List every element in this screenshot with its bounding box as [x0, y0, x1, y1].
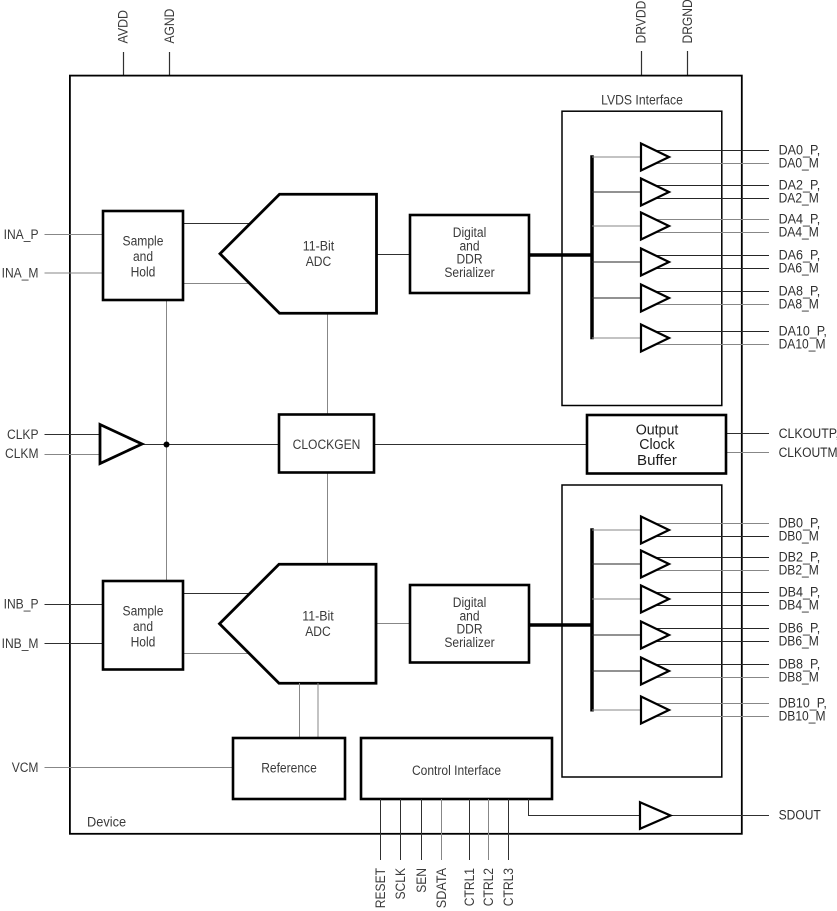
- block Output Clock Buffer: [587, 415, 726, 474]
- bus LVDS A vertical (thick): [590, 155, 594, 339]
- wire DRGND pin stub: [687, 51, 689, 75]
- svg-text:DRVDD: DRVDD: [634, 0, 649, 43]
- buffer DA4 triangle: [641, 213, 669, 240]
- wire bus to buffer DA6: [592, 261, 641, 263]
- wire bus to buffer DB0: [592, 529, 641, 531]
- wire DA0_M output: [653, 163, 769, 165]
- wire bus to buffer DA8: [592, 297, 641, 299]
- svg-text:SDATA: SDATA: [434, 868, 449, 908]
- block 11-Bit ADC B pentagon: [220, 564, 377, 683]
- clock input buffer triangle: [100, 425, 142, 464]
- buffer SDOUT triangle: [640, 802, 671, 829]
- wire DB8_M output: [653, 677, 769, 679]
- block Sample and Hold B: [103, 581, 183, 670]
- svg-text:DB4_M: DB4_M: [779, 598, 819, 613]
- block CLOCKGEN: [279, 415, 374, 473]
- buffer DB6 triangle: [641, 622, 669, 649]
- svg-text:SCLK: SCLK: [393, 868, 408, 900]
- wire clock buffer out to CLOCKGEN: [142, 444, 279, 446]
- wire DB2_M output: [653, 570, 769, 572]
- wire VCM to Reference: [45, 767, 234, 769]
- svg-text:ADC: ADC: [306, 254, 332, 269]
- buffer DB10 triangle: [641, 697, 669, 724]
- svg-text:DA4_M: DA4_M: [779, 225, 819, 240]
- wire bus to buffer DB10: [592, 709, 641, 711]
- block Reference: [233, 738, 345, 799]
- svg-text:CLKOUTP,: CLKOUTP,: [779, 426, 837, 441]
- svg-text:Serializer: Serializer: [444, 265, 495, 280]
- wire ADC B to Reference left: [299, 683, 301, 738]
- wire RESET pin: [380, 799, 382, 860]
- svg-text:VCM: VCM: [12, 760, 39, 775]
- svg-text:DB10_M: DB10_M: [779, 709, 826, 724]
- svg-text:11-Bit: 11-Bit: [303, 238, 335, 253]
- wire bus to buffer DA4: [592, 225, 641, 227]
- wire bus to buffer DA0: [592, 156, 641, 158]
- svg-text:DA0_M: DA0_M: [779, 156, 819, 171]
- wire DA6_M output: [653, 268, 769, 270]
- svg-text:DA10_M: DA10_M: [779, 337, 826, 352]
- buffer DA2 triangle: [641, 179, 669, 206]
- svg-text:INA_M: INA_M: [2, 266, 39, 281]
- wire serializer B to LVDS bus (thick): [529, 623, 592, 627]
- bus LVDS B vertical (thick): [590, 528, 594, 711]
- svg-text:and: and: [133, 249, 153, 264]
- svg-text:CTRL2: CTRL2: [481, 868, 496, 906]
- wire CTRL1 pin: [469, 799, 471, 860]
- svg-text:DB8_M: DB8_M: [779, 670, 819, 685]
- wire CLKP: [45, 434, 101, 436]
- junction dot clock node: [164, 442, 170, 448]
- svg-text:INA_P: INA_P: [4, 227, 39, 242]
- wire DB6_M output: [653, 641, 769, 643]
- svg-text:DB2_M: DB2_M: [779, 563, 819, 578]
- wire DB0_P output: [653, 523, 769, 525]
- wire SDOUT output: [671, 815, 770, 817]
- wire SEN pin: [421, 799, 423, 860]
- wire DA6_P output: [653, 255, 769, 257]
- wire CLOCKGEN to ADC B: [327, 473, 329, 565]
- svg-text:INB_P: INB_P: [4, 597, 39, 612]
- device boundary box: [70, 76, 742, 834]
- wire DA10_M output: [653, 344, 769, 346]
- buffer DA0 triangle: [641, 144, 669, 171]
- wire DB2_P output: [653, 557, 769, 559]
- block Control Interface: [361, 738, 552, 799]
- buffer DB4 triangle: [641, 586, 669, 613]
- wire DB8_P output: [653, 664, 769, 666]
- wire ADC B to serializer B: [376, 623, 411, 625]
- block Digital and DDR Serializer A: [410, 215, 529, 293]
- wire AGND pin stub: [169, 52, 171, 76]
- wire CLOCKGEN to ADC A: [327, 313, 329, 415]
- wire S/H A to ADC A lower: [183, 283, 255, 285]
- wire S/H B to ADC B upper: [183, 593, 255, 595]
- svg-text:and: and: [133, 619, 153, 634]
- wire INB_M: [45, 643, 104, 645]
- wire clock vertical to both S/H: [166, 300, 168, 581]
- wire ADC A to serializer A: [377, 254, 411, 256]
- wire INB_P: [45, 604, 104, 606]
- svg-text:Clock: Clock: [639, 437, 675, 453]
- block 11-Bit ADC A pentagon: [220, 194, 377, 313]
- wire CLKOUTM: [726, 452, 769, 454]
- buffer DB2 triangle: [641, 551, 669, 578]
- wire S/H B to ADC B lower: [183, 653, 255, 655]
- wire bus to buffer DB8: [592, 670, 641, 672]
- wire SCLK pin: [400, 799, 402, 860]
- svg-text:Hold: Hold: [131, 264, 156, 279]
- wire bus to buffer DB2: [592, 563, 641, 565]
- svg-text:CLKM: CLKM: [5, 446, 39, 461]
- wire DA2_P output: [653, 185, 769, 187]
- buffer DA10 triangle: [641, 325, 669, 352]
- svg-text:Buffer: Buffer: [637, 453, 677, 469]
- block LVDS Interface A box: [562, 111, 722, 405]
- buffer DA8 triangle: [641, 285, 669, 312]
- svg-text:INB_M: INB_M: [2, 636, 39, 651]
- block Digital and DDR Serializer B: [410, 585, 529, 663]
- wire CLKOUTP: [726, 433, 769, 435]
- svg-text:ADC: ADC: [305, 624, 331, 639]
- svg-text:Sample: Sample: [123, 234, 164, 249]
- wire DB4_M output: [653, 605, 769, 607]
- svg-text:Hold: Hold: [131, 634, 156, 649]
- svg-text:DA8_M: DA8_M: [779, 297, 819, 312]
- wire DB6_P output: [653, 628, 769, 630]
- svg-text:CTRL1: CTRL1: [462, 868, 477, 906]
- wire DB0_M output: [653, 536, 769, 538]
- svg-text:AGND: AGND: [162, 8, 177, 43]
- buffer DB0 triangle: [641, 517, 669, 544]
- svg-text:SEN: SEN: [414, 868, 429, 893]
- svg-text:CLKOUTM: CLKOUTM: [779, 445, 837, 460]
- wire DA2_M output: [653, 198, 769, 200]
- wire CTRL2 pin: [488, 799, 490, 860]
- svg-text:DB6_M: DB6_M: [779, 634, 819, 649]
- svg-text:Device: Device: [87, 815, 126, 830]
- wire INA_M: [45, 272, 104, 274]
- svg-text:RESET: RESET: [373, 868, 388, 908]
- wire DA8_M output: [653, 304, 769, 306]
- wire S/H A to ADC A upper: [183, 223, 255, 225]
- wire CLOCKGEN to Output Clock Buffer: [374, 444, 587, 446]
- wire bus to buffer DB6: [592, 634, 641, 636]
- wire DRVDD pin stub: [641, 51, 643, 75]
- svg-text:Sample: Sample: [123, 604, 164, 619]
- svg-text:CTRL3: CTRL3: [501, 868, 516, 906]
- svg-text:Serializer: Serializer: [444, 635, 495, 650]
- wire CTRL3 pin: [508, 799, 510, 860]
- wire DA10_P output: [653, 331, 769, 333]
- wire DB4_P output: [653, 592, 769, 594]
- svg-text:DB0_M: DB0_M: [779, 529, 819, 544]
- svg-text:SDOUT: SDOUT: [779, 808, 821, 823]
- svg-text:DA2_M: DA2_M: [779, 191, 819, 206]
- wire bus to buffer DA2: [592, 191, 641, 193]
- wire DA8_P output: [653, 291, 769, 293]
- svg-text:Reference: Reference: [261, 761, 317, 776]
- svg-text:CLOCKGEN: CLOCKGEN: [293, 437, 361, 452]
- wire DA4_M output: [653, 232, 769, 234]
- svg-text:DRGND: DRGND: [680, 0, 695, 44]
- wire DB10_M output: [653, 716, 769, 718]
- wire SDATA pin: [441, 799, 443, 860]
- block Sample and Hold A: [103, 211, 183, 300]
- svg-text:LVDS Interface: LVDS Interface: [601, 93, 683, 108]
- wire AVDD pin stub: [123, 52, 125, 76]
- block LVDS Interface B box: [562, 485, 722, 777]
- buffer DA6 triangle: [641, 249, 669, 276]
- svg-text:CLKP: CLKP: [7, 427, 39, 442]
- wire DA0_P output: [653, 150, 769, 152]
- wire INA_P: [45, 234, 104, 236]
- wire serializer A to LVDS bus (thick): [529, 253, 592, 257]
- buffer DB8 triangle: [641, 658, 669, 685]
- wire DB10_P output: [653, 703, 769, 705]
- svg-text:11-Bit: 11-Bit: [302, 608, 334, 623]
- wire CLKM: [45, 454, 101, 456]
- wire ADC B to Reference right: [317, 683, 319, 738]
- wire DA4_P output: [653, 219, 769, 221]
- svg-text:AVDD: AVDD: [116, 10, 131, 44]
- svg-text:Control Interface: Control Interface: [412, 763, 501, 778]
- wire bus to buffer DB4: [592, 598, 641, 600]
- wire Control Interface to SDOUT buffer: [529, 799, 641, 816]
- wire bus to buffer DA10: [592, 337, 641, 339]
- svg-text:DA6_M: DA6_M: [779, 261, 819, 276]
